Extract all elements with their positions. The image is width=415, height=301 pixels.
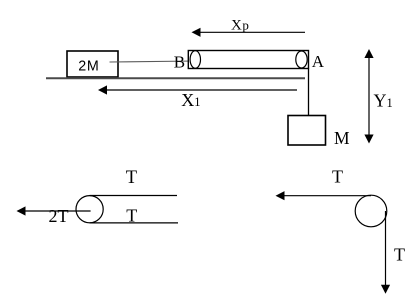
- svg-text:M: M: [334, 128, 350, 148]
- svg-text:T: T: [394, 244, 405, 264]
- block M: [288, 116, 326, 146]
- wire with arrow T down: [381, 211, 390, 294]
- arrow T (horizontal): [276, 191, 372, 200]
- svg-text:2M: 2M: [78, 59, 99, 75]
- left pulley: [76, 196, 103, 223]
- wire A to block M: [308, 69, 310, 116]
- wire 2M to B: [110, 61, 197, 62]
- ground line: [46, 77, 305, 79]
- belt top wire: [90, 195, 177, 197]
- arrow Y1 (double headed): [364, 49, 373, 144]
- cylinder left end ellipse: [190, 51, 200, 69]
- svg-text:B: B: [174, 53, 185, 72]
- arrow Xp: [192, 28, 306, 37]
- svg-text:T: T: [126, 206, 137, 226]
- arrow X1: [98, 85, 297, 94]
- belt bottom wire: [90, 222, 178, 224]
- cylinder right end ellipse: [296, 51, 307, 68]
- svg-text:2T: 2T: [49, 206, 69, 226]
- right pulley: [355, 195, 387, 227]
- svg-text:A: A: [312, 52, 325, 71]
- svg-text:T: T: [332, 167, 343, 187]
- block 2M: [67, 51, 118, 77]
- cylinder rod body: [188, 51, 308, 69]
- svg-text:Xp: Xp: [231, 17, 249, 33]
- arrow 2T: [17, 206, 91, 215]
- svg-text:T: T: [126, 168, 137, 188]
